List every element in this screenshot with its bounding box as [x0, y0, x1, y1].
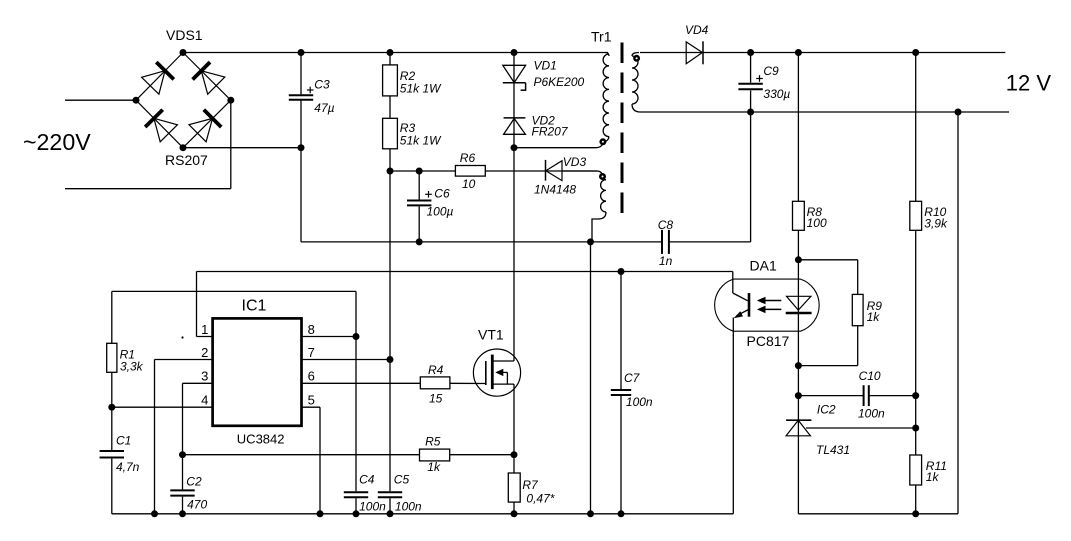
svg-text:3,3k: 3,3k: [120, 360, 144, 374]
svg-text:R5: R5: [425, 435, 441, 449]
svg-text:PC817: PC817: [747, 333, 790, 349]
capacitor C4: [344, 491, 368, 493]
node C6 bottom: [416, 238, 423, 245]
svg-text:100: 100: [807, 216, 827, 230]
wire R3 to Vcc node: [389, 149, 391, 171]
svg-text:2: 2: [201, 345, 208, 360]
svg-text:10: 10: [462, 177, 476, 191]
bridge rectifier VDS1 diode D-a (left to top): [136, 53, 183, 101]
resistor R3: [383, 118, 398, 149]
svg-text:3,9k: 3,9k: [924, 217, 948, 231]
capacitor C6: [418, 171, 420, 200]
svg-text:C7: C7: [624, 371, 641, 385]
svg-text:C5: C5: [394, 473, 410, 487]
capacitor C5: [378, 491, 402, 493]
svg-text:1N4148: 1N4148: [534, 182, 576, 196]
node ref junction: [912, 425, 919, 432]
wire R2R3 vertical down to pin7: [389, 171, 391, 360]
node Vcc junction: [387, 168, 394, 175]
wire 12V return rail: [640, 111, 1009, 113]
svg-text:15: 15: [429, 392, 443, 406]
resistor R5: [420, 449, 450, 461]
resistor R2: [389, 53, 391, 65]
wire AC right leg: [230, 100, 232, 189]
svg-text:R4: R4: [428, 363, 444, 377]
svg-text:C4: C4: [359, 473, 375, 487]
node C9 top: [747, 49, 754, 56]
node C7 gnd: [618, 510, 625, 517]
bridge rectifier diode D-d (bottom to right): [183, 100, 231, 148]
diode VD1 P6KE200: [513, 53, 515, 148]
node C10 right: [912, 392, 919, 399]
svg-text:C3: C3: [314, 78, 330, 92]
svg-text:1k: 1k: [427, 460, 441, 474]
node bridge right: [227, 97, 234, 104]
svg-text:C10: C10: [859, 369, 881, 383]
resistor R6: [390, 170, 455, 172]
pin 8: [302, 336, 357, 338]
svg-text:1k: 1k: [926, 470, 940, 484]
opto LED: [797, 260, 799, 313]
wire right feedback vertical: [957, 112, 959, 514]
wire +310V top rail: [183, 52, 608, 54]
node clamp/primary-bottom junction: [511, 144, 518, 151]
capacitor C9: [750, 53, 752, 83]
svg-text:VDS1: VDS1: [166, 27, 203, 43]
node C2 gnd: [179, 510, 186, 517]
wire pin4: [112, 406, 213, 408]
wire Vref line R1 to pin8: [112, 290, 356, 292]
node C4 gnd: [353, 510, 360, 517]
svg-text:VD3: VD3: [563, 155, 587, 169]
node pin3/C2/R5 junction: [179, 451, 186, 458]
pin 6: [302, 382, 421, 384]
svg-text:51k 1W: 51k 1W: [400, 81, 442, 95]
svg-text:R7: R7: [522, 478, 539, 492]
svg-text:IC2: IC2: [817, 403, 836, 417]
svg-text:1k: 1k: [867, 310, 881, 324]
stray mark: [181, 336, 183, 338]
node C3 bottom: [298, 144, 305, 151]
node R7 bottom: [511, 510, 518, 517]
node C9 bottom: [747, 109, 754, 116]
wire aux gnd vertical: [590, 242, 592, 514]
capacitor C8: [661, 230, 663, 254]
pin 5: [302, 406, 321, 408]
svg-text:VD4: VD4: [685, 23, 709, 37]
svg-text:4,7n: 4,7n: [116, 460, 140, 474]
pin 2: [155, 359, 213, 361]
node LED cathode junction: [795, 362, 802, 369]
svg-text:C6: C6: [434, 186, 450, 200]
resistor R4: [420, 377, 450, 389]
node bridge top: [180, 49, 187, 56]
opto LED arrows: [760, 300, 781, 302]
wire pin1 net to opto collector: [197, 271, 733, 273]
node C3 top: [298, 49, 305, 56]
wire AC input top: [65, 99, 136, 101]
svg-text:6: 6: [308, 369, 315, 384]
wire Vref vertical x=356: [355, 291, 357, 491]
node bridge left: [133, 97, 140, 104]
svg-text:DA1: DA1: [750, 258, 777, 274]
wire gate: [450, 382, 486, 384]
wire C3 down to primary ground bus: [300, 148, 302, 242]
wire R9 bottom link: [798, 365, 857, 367]
node return right corner: [955, 109, 962, 116]
svg-text:~220V: ~220V: [23, 129, 91, 155]
capacitor C1: [111, 407, 113, 450]
svg-text:C8: C8: [658, 218, 674, 232]
capacitor C2: [182, 455, 184, 490]
diode VD3 1N4148: [545, 160, 547, 181]
svg-text:C2: C2: [186, 474, 202, 488]
wire R2-R3: [389, 96, 391, 118]
svg-text:51k 1W: 51k 1W: [400, 133, 442, 147]
svg-text:VT1: VT1: [478, 327, 504, 343]
svg-text:FR207: FR207: [532, 125, 569, 139]
node R10 top: [912, 49, 919, 56]
node C6 top: [416, 168, 423, 175]
svg-text:330µ: 330µ: [763, 87, 790, 101]
node bridge bottom: [180, 144, 187, 151]
opto phototransistor emitter: [737, 310, 749, 316]
wire bridge minus to C3: [183, 147, 301, 149]
pin 3: [183, 382, 213, 384]
svg-text:C9: C9: [763, 64, 779, 78]
svg-text:47µ: 47µ: [314, 101, 334, 115]
node C5 gnd: [387, 510, 394, 517]
svg-text:RS207: RS207: [165, 152, 208, 168]
svg-text:1n: 1n: [659, 254, 673, 268]
node R1/C1/pin4 junction: [108, 404, 115, 411]
capacitor C3: [300, 53, 302, 95]
resistor R8: [797, 53, 799, 202]
pin 7: [302, 359, 391, 361]
wire AC input bottom: [65, 188, 231, 190]
node source/R7 junction: [511, 451, 518, 458]
optocoupler DA1 body: [715, 279, 820, 331]
transformer Tr1 primary winding: [605, 53, 609, 57]
opto phototransistor collector: [732, 272, 734, 294]
wire 12V top rail: [703, 52, 1005, 54]
svg-text:1: 1: [201, 322, 208, 337]
node secondary start (ring): [633, 55, 640, 62]
svg-text:100n: 100n: [626, 395, 653, 409]
svg-text:8: 8: [308, 322, 315, 337]
IC1 box UC3842: [213, 318, 302, 425]
wire drain vertical: [513, 148, 515, 361]
node R8 bottom / R9 top junction: [795, 256, 802, 263]
resistor R1: [111, 291, 113, 343]
node pin5 gnd: [317, 510, 324, 517]
transformer aux winding: [601, 180, 606, 212]
transformer secondary winding: [632, 53, 639, 57]
wire R9 top link: [798, 259, 857, 261]
resistor R7: [513, 455, 515, 473]
svg-text:Tr1: Tr1: [591, 29, 612, 45]
resistor R9: [852, 294, 863, 325]
svg-text:0,47*: 0,47*: [526, 491, 554, 505]
wire primary ground rail: [112, 513, 734, 515]
wire TL431 ref: [806, 427, 916, 429]
capacitor C7: [620, 272, 622, 390]
svg-text:3: 3: [201, 369, 208, 384]
wire LED cathode to C10 node: [797, 366, 799, 396]
svg-text:R6: R6: [460, 151, 476, 165]
svg-text:100n: 100n: [395, 499, 422, 513]
node R8 top: [795, 49, 802, 56]
capacitor C10: [798, 395, 863, 397]
wire opto emitter down: [732, 318, 734, 514]
node pin7 junction: [387, 356, 394, 363]
node pin8 junction: [353, 333, 360, 340]
svg-text:100µ: 100µ: [427, 205, 454, 219]
wire C8 right up to secondary gnd: [750, 112, 752, 242]
wire primary bottom: [514, 143, 603, 148]
node C7 top junction: [618, 268, 625, 275]
diode VD2 FR207: [504, 117, 526, 119]
svg-text:4: 4: [201, 393, 208, 408]
opto phototransistor bar: [748, 293, 751, 317]
svg-text:470: 470: [187, 497, 207, 511]
svg-text:7: 7: [308, 345, 315, 360]
wire secondary ground rail: [798, 513, 958, 515]
node aux gnd junction: [587, 238, 594, 245]
node aux winding start (ring): [599, 173, 606, 180]
node R2 top: [387, 49, 394, 56]
resistor R10: [915, 53, 917, 202]
bridge rectifier diode D-b (right to top): [183, 53, 231, 101]
wire source down: [513, 384, 515, 455]
bridge rectifier diode D-c (bottom to left): [136, 100, 183, 148]
svg-text:UC3842: UC3842: [237, 431, 285, 446]
svg-text:5: 5: [308, 393, 315, 408]
node pin2 gnd: [151, 510, 158, 517]
node primary winding start (ring): [599, 138, 606, 145]
diode VD4: [640, 52, 703, 54]
svg-text:100n: 100n: [359, 499, 386, 513]
svg-text:VD1: VD1: [534, 59, 557, 73]
transformer core: [621, 43, 624, 214]
node VD1 top: [511, 49, 518, 56]
wire VD3 to aux winding: [562, 171, 606, 180]
node C10 left: [795, 392, 802, 399]
svg-text:P6KE200: P6KE200: [534, 75, 585, 89]
node aux-vert gnd: [587, 510, 594, 517]
svg-text:100n: 100n: [858, 407, 885, 421]
resistor R11: [910, 455, 922, 485]
wire horizontal primary ground link y=242: [301, 241, 661, 243]
pin 1: [197, 336, 213, 338]
shunt regulator IC2 TL431: [797, 396, 799, 436]
svg-text:C1: C1: [116, 433, 131, 447]
wire down to C5: [389, 360, 391, 492]
svg-text:TL431: TL431: [816, 443, 850, 457]
svg-text:IC1: IC1: [242, 297, 267, 314]
node R11 bottom: [912, 510, 919, 517]
svg-text:12 V: 12 V: [1006, 71, 1052, 96]
wire R5 line: [183, 454, 420, 456]
